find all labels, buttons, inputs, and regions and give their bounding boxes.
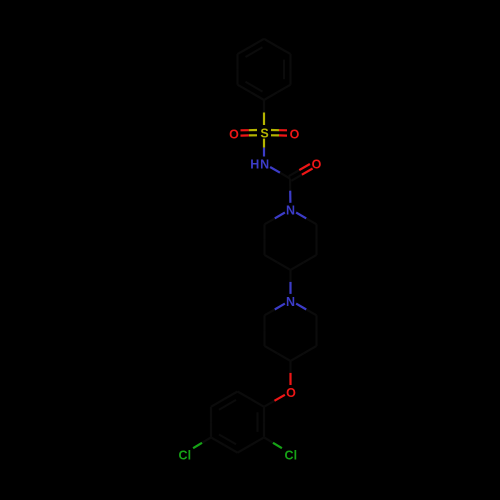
svg-text:S: S [260, 127, 268, 141]
svg-text:O: O [290, 127, 300, 141]
svg-text:O: O [229, 127, 239, 141]
svg-text:O: O [286, 386, 296, 400]
svg-text:N: N [260, 158, 269, 172]
svg-text:N: N [286, 295, 295, 309]
svg-text:Cl: Cl [285, 449, 298, 463]
svg-text:Cl: Cl [179, 449, 192, 463]
svg-text:O: O [312, 157, 322, 171]
svg-text:N: N [286, 204, 295, 218]
svg-text:H: H [250, 158, 259, 172]
